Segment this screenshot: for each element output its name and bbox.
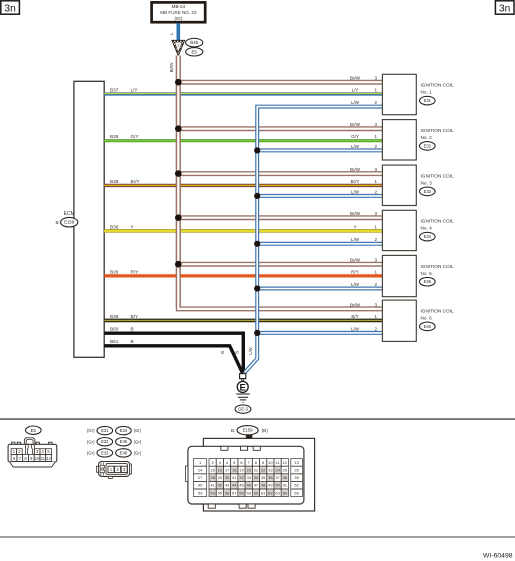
svg-text:L/W: L/W — [351, 326, 360, 331]
svg-text:56: 56 — [225, 490, 230, 495]
fuse box MB-34 MB FUSE NO. 23 (IG) — [152, 2, 206, 22]
svg-text:L: L — [169, 32, 174, 35]
ignition coil No. 3 box — [350, 165, 454, 205]
svg-text:33: 33 — [246, 475, 251, 480]
svg-text:63: 63 — [275, 490, 280, 495]
svg-text:No. 4: No. 4 — [421, 226, 433, 231]
svg-text:E5: E5 — [31, 428, 37, 433]
svg-text:32: 32 — [239, 475, 244, 480]
svg-text:E158: E158 — [243, 428, 254, 433]
svg-text:IGNITION COIL: IGNITION COIL — [421, 264, 454, 269]
svg-text:B:: B: — [55, 220, 59, 225]
wire Br/W branch to ignition coil No. 5 pin 3 — [178, 262, 382, 267]
svg-text:35: 35 — [261, 475, 266, 480]
svg-text:B: B — [131, 339, 134, 344]
svg-text:E46: E46 — [120, 450, 128, 455]
svg-text:34: 34 — [254, 475, 259, 480]
svg-text:12: 12 — [46, 456, 51, 461]
legend ECM pin grid — [194, 459, 303, 497]
svg-text:39: 39 — [294, 475, 299, 480]
svg-text:L/Y: L/Y — [131, 87, 139, 92]
wire L/W branch to ignition coil No. 6 pin 2 — [257, 331, 382, 335]
svg-text:20: 20 — [246, 468, 251, 473]
svg-text:42: 42 — [218, 483, 223, 488]
svg-text:Y: Y — [353, 224, 356, 229]
svg-text:E31: E31 — [424, 98, 432, 103]
svg-text:51: 51 — [283, 483, 288, 488]
svg-text:G/Y: G/Y — [351, 134, 359, 139]
wire Br/W vertical feed with branch to ignition coil No. 6 — [178, 56, 382, 309]
coil connector oval E32 — [420, 142, 436, 151]
svg-text:10: 10 — [35, 456, 40, 461]
svg-text:43: 43 — [225, 483, 230, 488]
svg-text:64: 64 — [283, 490, 288, 495]
svg-text:19: 19 — [239, 468, 244, 473]
svg-text:MB-34: MB-34 — [172, 4, 186, 9]
connector oval E5 — [186, 48, 203, 56]
svg-text:(Gr): (Gr) — [87, 439, 95, 444]
coil connector oval E34 — [420, 232, 436, 241]
svg-text:B35: B35 — [110, 134, 119, 139]
junction L/W coil No. 5 — [254, 285, 260, 291]
svg-text:B: B — [220, 351, 225, 354]
svg-text:B38: B38 — [110, 179, 119, 184]
svg-text:IGNITION COIL: IGNITION COIL — [421, 83, 454, 88]
legend oval E32 — [97, 438, 113, 446]
wire B from ECM B60 — [104, 333, 243, 372]
svg-text:48: 48 — [261, 483, 266, 488]
svg-text:E158: E158 — [64, 220, 74, 225]
junction Br/W coil No. 5 — [175, 261, 182, 268]
ground symbol — [236, 394, 250, 402]
coil connector oval E45 — [420, 277, 436, 286]
legend oval E33 — [97, 449, 113, 457]
connect square to E — [241, 379, 244, 381]
svg-text:Br/Y: Br/Y — [131, 179, 141, 184]
svg-text:14: 14 — [198, 468, 203, 473]
ignition coil No. 5 box — [350, 255, 454, 296]
svg-text:IGNITION COIL: IGNITION COIL — [421, 219, 454, 224]
section label 3n top-right — [495, 1, 514, 15]
junction Br/W coil No. 4 — [175, 214, 182, 221]
svg-text:WI-60498: WI-60498 — [483, 553, 513, 560]
svg-text:36: 36 — [268, 475, 273, 480]
legend oval E45 — [116, 438, 132, 446]
ignition coil No. 1 box — [350, 74, 454, 114]
separator line lower — [0, 536, 515, 538]
connector oval B45 — [186, 38, 203, 47]
svg-text:L/W: L/W — [351, 144, 360, 149]
svg-text:B/Y: B/Y — [351, 314, 358, 319]
svg-text:52: 52 — [294, 483, 299, 488]
svg-text:54: 54 — [210, 490, 215, 495]
wire L/W vertical bus — [245, 107, 383, 373]
svg-text:65: 65 — [294, 490, 299, 495]
legend coil connector 3-pin side view — [96, 462, 131, 479]
svg-text:L/W: L/W — [351, 189, 360, 194]
legend E5 pin cells — [11, 449, 51, 462]
junction Br/W coil No. 3 — [175, 170, 182, 177]
section label 3n top-left — [1, 1, 20, 15]
svg-text:G/Y: G/Y — [131, 134, 140, 139]
wire Br/W branch to ignition coil No. 1 pin 3 — [178, 80, 382, 85]
svg-text:B: B — [234, 351, 239, 354]
svg-text:E32: E32 — [424, 143, 432, 148]
wire Y from ECM B36 to ignition coil No. 4 pin 1 — [104, 229, 382, 233]
svg-text:61: 61 — [261, 490, 266, 495]
wire B from ECM B61 — [104, 346, 242, 373]
svg-text:B60: B60 — [110, 327, 119, 332]
ground oval GE-3 — [235, 405, 251, 413]
svg-text:(Gr): (Gr) — [134, 451, 142, 456]
svg-text:30: 30 — [225, 475, 230, 480]
svg-text:15: 15 — [210, 468, 215, 473]
legend oval E5 — [26, 426, 42, 434]
svg-text:62: 62 — [268, 490, 273, 495]
svg-text:27: 27 — [198, 475, 203, 480]
junction L/W coil No. 2 — [254, 147, 260, 153]
svg-text:IGNITION COIL: IGNITION COIL — [421, 128, 454, 133]
svg-text:(Gr): (Gr) — [134, 439, 142, 444]
svg-text:22: 22 — [261, 468, 266, 473]
svg-text:B37: B37 — [110, 87, 119, 92]
svg-text:GE-3: GE-3 — [238, 407, 248, 412]
legend connector E5 front view — [8, 438, 57, 467]
svg-text:18: 18 — [232, 468, 237, 473]
ground terminal square — [240, 374, 246, 379]
ignition coil No. 4 box — [350, 210, 454, 250]
svg-text:(IG): (IG) — [174, 16, 182, 21]
svg-text:No. 1: No. 1 — [421, 90, 433, 95]
svg-text:29: 29 — [218, 475, 223, 480]
svg-text:Br/W: Br/W — [169, 62, 174, 73]
svg-text:16: 16 — [218, 468, 223, 473]
svg-text:25: 25 — [283, 468, 288, 473]
svg-text:46: 46 — [246, 483, 251, 488]
svg-text:E: E — [239, 382, 246, 393]
svg-text:Br/W: Br/W — [350, 302, 361, 307]
svg-text:45: 45 — [239, 483, 244, 488]
svg-text:Br/Y: Br/Y — [351, 179, 360, 184]
svg-text:ECM: ECM — [64, 211, 75, 217]
svg-text:21: 21 — [254, 468, 259, 473]
junction L/W coil No. 3 — [254, 193, 260, 199]
svg-text:E45: E45 — [424, 279, 432, 284]
wire Br/Y from ECM B38 to ignition coil No. 3 pin 1 — [104, 184, 382, 187]
svg-text:Br/W: Br/W — [350, 76, 361, 81]
connector B45/E5 double-triangle symbol — [172, 40, 185, 56]
svg-text:B45: B45 — [190, 40, 198, 45]
svg-text:(Gr): (Gr) — [87, 428, 95, 433]
svg-text:E32: E32 — [101, 439, 109, 444]
junction L/W coil No. 4 — [254, 241, 260, 247]
svg-text:50: 50 — [275, 483, 280, 488]
svg-text:L/W: L/W — [351, 282, 360, 287]
svg-text:R/Y: R/Y — [351, 269, 359, 274]
wire G/Y from ECM B35 to ignition coil No. 2 pin 1 — [104, 139, 382, 142]
svg-text:IGNITION COIL: IGNITION COIL — [421, 309, 454, 314]
svg-text:Br/W: Br/W — [350, 122, 361, 127]
svg-text:No. 6: No. 6 — [421, 316, 433, 321]
svg-text:B/Y: B/Y — [131, 314, 139, 319]
svg-text:Br/W: Br/W — [350, 211, 361, 216]
svg-text:3n: 3n — [4, 3, 15, 14]
svg-text:12: 12 — [283, 460, 288, 465]
svg-text:31: 31 — [232, 475, 237, 480]
svg-text:B: B — [131, 327, 134, 332]
svg-text:R/Y: R/Y — [131, 269, 140, 274]
svg-text:60: 60 — [254, 490, 259, 495]
svg-text:40: 40 — [198, 483, 203, 488]
legend oval E31 — [97, 426, 113, 434]
svg-text:B61: B61 — [110, 339, 119, 344]
svg-text:53: 53 — [198, 490, 203, 495]
svg-text:47: 47 — [254, 483, 259, 488]
legend oval E46 — [116, 449, 132, 457]
svg-text:(B): (B) — [262, 428, 269, 433]
wire L/W branch to ignition coil No. 2 pin 2 — [257, 148, 382, 152]
svg-text:B26: B26 — [110, 269, 119, 274]
svg-text:MB FUSE NO. 23: MB FUSE NO. 23 — [160, 10, 197, 15]
svg-text:23: 23 — [268, 468, 273, 473]
junction Br/W coil No. 2 — [175, 125, 182, 132]
svg-text:E33: E33 — [424, 189, 432, 194]
legend oval E158 — [237, 426, 258, 435]
svg-text:L/W: L/W — [248, 347, 253, 354]
svg-text:17: 17 — [225, 468, 230, 473]
svg-text:55: 55 — [218, 490, 223, 495]
svg-text:59: 59 — [246, 490, 251, 495]
svg-text:41: 41 — [210, 483, 215, 488]
svg-text:2: 2 — [177, 43, 179, 47]
junction L/W coil No. 6 — [254, 330, 260, 336]
svg-text:No. 2: No. 2 — [421, 135, 433, 140]
wire L/W branch to ignition coil No. 4 pin 2 — [257, 242, 382, 246]
wire L/Y from ECM B37 to ignition coil No. 1 pin 1 — [104, 92, 382, 96]
ECM box — [74, 81, 104, 357]
svg-text:(Gr): (Gr) — [134, 428, 142, 433]
wire L (blue) from fuse box — [177, 23, 181, 41]
svg-text:Br/W: Br/W — [350, 258, 361, 263]
svg-text:No. 5: No. 5 — [421, 271, 433, 276]
legend ECM connector body — [186, 435, 315, 511]
svg-text:E45: E45 — [120, 439, 128, 444]
svg-text:38: 38 — [283, 475, 288, 480]
svg-text:11: 11 — [41, 456, 46, 461]
wire L/W branch to ignition coil No. 5 pin 2 — [257, 287, 382, 291]
svg-text:E34: E34 — [424, 234, 432, 239]
svg-text:10: 10 — [268, 460, 273, 465]
svg-text:(Gr): (Gr) — [87, 451, 95, 456]
wire B/Y from ECM B39 to ignition coil No. 6 pin 1 — [104, 319, 382, 323]
svg-text:3n: 3n — [499, 3, 510, 14]
svg-text:E46: E46 — [424, 324, 432, 329]
svg-text:L/W: L/W — [351, 237, 360, 242]
junction Br/W coil No. 1 — [175, 79, 182, 86]
svg-text:28: 28 — [210, 475, 215, 480]
ECM connector oval E158 — [61, 217, 78, 227]
coil connector oval E46 — [420, 322, 436, 331]
svg-text:24: 24 — [275, 468, 280, 473]
ignition coil No. 2 box — [350, 120, 454, 160]
svg-text:IGNITION COIL: IGNITION COIL — [421, 174, 454, 179]
coil connector oval E33 — [420, 187, 436, 196]
svg-text:B39: B39 — [110, 314, 119, 319]
svg-text:E5: E5 — [192, 49, 198, 54]
coil connector oval E31 — [420, 96, 436, 105]
svg-text:E34: E34 — [120, 428, 128, 433]
svg-text:49: 49 — [268, 483, 273, 488]
wire Br/W branch to ignition coil No. 4 pin 3 — [178, 215, 382, 220]
svg-text:B:: B: — [231, 428, 235, 433]
svg-text:58: 58 — [239, 490, 244, 495]
svg-text:57: 57 — [232, 490, 237, 495]
svg-text:No. 3: No. 3 — [421, 181, 433, 186]
svg-text:26: 26 — [294, 468, 299, 473]
ignition coil No. 6 box — [350, 300, 454, 341]
wire L/W branch to ignition coil No. 3 pin 2 — [257, 194, 382, 198]
legend oval E34 — [116, 426, 132, 434]
svg-text:E33: E33 — [101, 450, 109, 455]
ground point E circle — [237, 381, 248, 393]
svg-text:Br/W: Br/W — [350, 167, 361, 172]
svg-text:L/W: L/W — [351, 100, 360, 105]
wire R/Y from ECM B26 to ignition coil No. 5 pin 1 — [104, 274, 382, 277]
wire Br/W vertical feed bus — [176, 56, 181, 309]
svg-text:44: 44 — [232, 483, 237, 488]
wire Br/W branch to ignition coil No. 2 pin 3 — [178, 126, 382, 131]
svg-text:37: 37 — [275, 475, 280, 480]
svg-text:L/Y: L/Y — [352, 87, 359, 92]
separator line upper — [0, 418, 515, 420]
svg-text:B36: B36 — [110, 224, 119, 229]
wire Br/W branch to ignition coil No. 3 pin 3 — [178, 171, 382, 176]
svg-text:E31: E31 — [101, 428, 109, 433]
svg-text:13: 13 — [294, 460, 299, 465]
